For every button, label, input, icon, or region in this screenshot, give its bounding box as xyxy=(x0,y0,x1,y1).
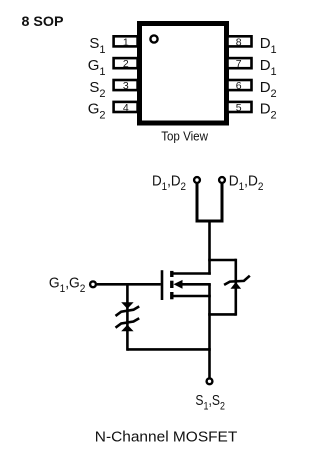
wire: ESD branch bottom to source xyxy=(127,348,210,351)
wire: drain terminals join xyxy=(196,220,224,223)
ESD zener ZD2 triangle (pointing up) xyxy=(121,325,133,332)
wire: body stub xyxy=(180,283,211,286)
svg-text:3: 3 xyxy=(123,80,129,92)
wire: source stub xyxy=(173,295,211,298)
pin 1 (S1) xyxy=(114,36,138,46)
pin 4 (G2) xyxy=(114,102,138,112)
svg-text:8 SOP: 8 SOP xyxy=(22,13,64,29)
terminal G1,G2 circle xyxy=(90,281,96,287)
transistor Q1 channel bar (source) xyxy=(170,292,173,299)
transistor Q1 gate plate xyxy=(161,270,164,300)
pin 3 (S2) xyxy=(114,80,138,90)
terminal S1,S2 circle xyxy=(207,378,213,384)
pin 2 (G1) xyxy=(114,58,138,68)
svg-text:Top View: Top View xyxy=(161,128,208,143)
pin 7 (D1) xyxy=(228,58,252,68)
body diode zener cathode bar xyxy=(224,276,250,285)
wire: left drain terminal drop xyxy=(196,184,199,223)
terminal D1,D2 (left) circle xyxy=(194,177,200,183)
wire: source bus down to S terminal xyxy=(208,284,211,378)
body diode D (zener) triangle xyxy=(231,282,242,289)
pin 6 (D2) xyxy=(228,80,252,90)
svg-text:5: 5 xyxy=(236,102,242,114)
transistor Q1 channel bar (drain) xyxy=(170,271,173,277)
svg-text:4: 4 xyxy=(123,102,129,114)
svg-text:8: 8 xyxy=(236,36,242,48)
svg-text:6: 6 xyxy=(236,80,242,92)
wire: right drain terminal drop xyxy=(221,184,224,223)
pin 5 (D2) xyxy=(228,102,252,112)
pin 8 (D1) xyxy=(228,36,252,46)
transistor Q1 channel bar (body) xyxy=(170,281,173,288)
wire: gate ESD branch vertical xyxy=(126,284,129,350)
svg-text:N-Channel MOSFET: N-Channel MOSFET xyxy=(95,428,238,445)
wire: body-diode branch vertical xyxy=(235,259,238,316)
wire: drain to body-diode branch (top) xyxy=(208,259,236,262)
transistor Q1 body arrow xyxy=(174,280,183,289)
ESD zener ZD1 cathode bar xyxy=(116,306,140,316)
wire: body-diode branch bottom xyxy=(208,313,236,316)
pin-1 indicator dot xyxy=(150,35,157,42)
ESD zener ZD2 cathode bar xyxy=(116,318,140,328)
ESD zener ZD1 triangle (pointing down) xyxy=(121,302,133,309)
wire: drain stub xyxy=(173,272,211,275)
wire: drain bus down to MOSFET drain xyxy=(208,221,211,275)
terminal D1,D2 (right) circle xyxy=(219,177,225,183)
svg-text:7: 7 xyxy=(236,58,242,70)
svg-text:2: 2 xyxy=(123,58,129,70)
package body U1 (8-SOP outline) xyxy=(140,24,227,124)
wire: gate lead xyxy=(97,283,161,286)
svg-text:1: 1 xyxy=(123,36,129,48)
